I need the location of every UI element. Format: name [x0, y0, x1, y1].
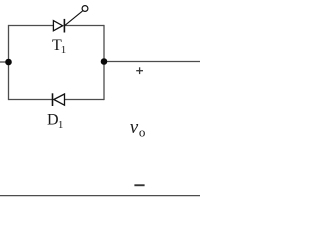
svg-text:1: 1 — [58, 119, 64, 131]
label minus sign — [134, 184, 144, 186]
label plus sign — [136, 67, 143, 74]
thyristor T1 — [53, 11, 82, 33]
node left (junction dot) — [5, 59, 12, 66]
node right (junction dot) — [101, 58, 108, 65]
wire bottom supply line — [0, 195, 200, 197]
wire right output lead — [104, 61, 200, 63]
wire bottom branch left segment — [9, 99, 53, 101]
wire left rail — [8, 25, 10, 100]
svg-text:1: 1 — [61, 44, 66, 56]
wire bottom branch right segment — [65, 99, 105, 101]
svg-text:v: v — [130, 117, 139, 138]
wire right rail — [103, 25, 105, 100]
gate terminal circle — [82, 6, 88, 12]
diode D1 — [53, 93, 65, 106]
wire top branch right segment — [65, 25, 105, 27]
wire top branch left segment — [9, 25, 54, 27]
svg-text:o: o — [139, 124, 146, 139]
svg-text:D: D — [47, 112, 59, 129]
wire left stub to edge — [0, 61, 9, 63]
